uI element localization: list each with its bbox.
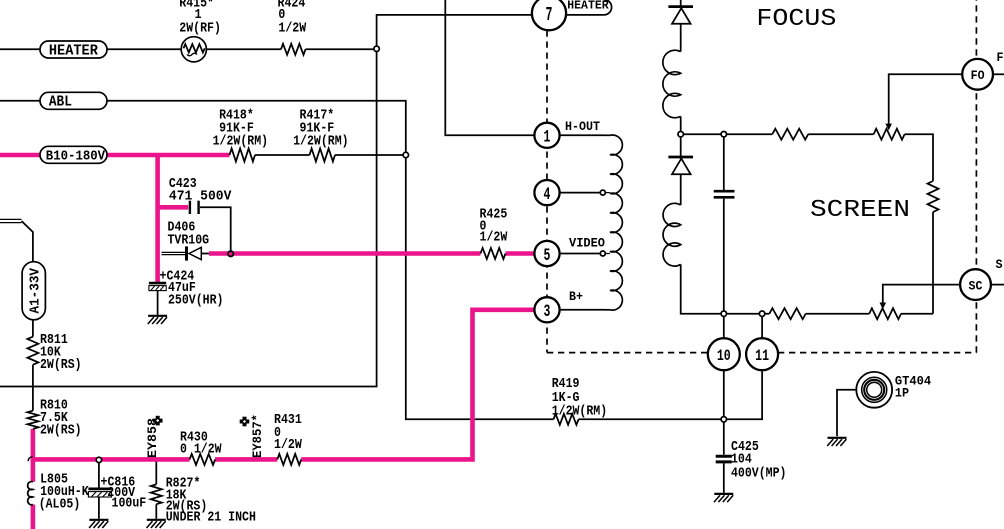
pin 10 bbox=[708, 338, 740, 370]
capacitor C423 plates bbox=[190, 201, 199, 214]
net magenta branch down to C424 bbox=[155, 155, 160, 282]
wire junction down to left rail bbox=[0, 49, 377, 387]
label R418 bbox=[213, 107, 269, 149]
wire pin 11 up to screen rail bbox=[761, 316, 763, 338]
junction D406/C423 node bbox=[228, 251, 233, 256]
label F right edge bbox=[997, 51, 1004, 65]
resistor focus series bbox=[772, 129, 808, 140]
svg-text:TVR10G: TVR10G bbox=[168, 233, 210, 249]
resistor R419 zigzag bbox=[554, 414, 579, 425]
label C816 bbox=[101, 475, 147, 512]
resistor R418 zigzag bbox=[230, 149, 256, 162]
label R431 bbox=[274, 412, 302, 453]
wire pin 5 tap bbox=[560, 253, 601, 255]
label C425 bbox=[731, 439, 787, 482]
port B10-180V bbox=[40, 146, 107, 164]
net B10-180V magenta to R418 bbox=[107, 153, 230, 158]
label C424 bbox=[160, 269, 224, 309]
junction C816 bus node bbox=[96, 457, 101, 462]
wire pin 4 tap stub bbox=[605, 192, 610, 194]
net magenta bus R430 to corner bbox=[33, 457, 190, 462]
HV winding upper bbox=[663, 50, 681, 118]
label S right edge bbox=[996, 258, 1003, 272]
pin 1 bbox=[534, 123, 559, 148]
wire ABL net from left edge bbox=[0, 100, 40, 102]
wire C816 junction down to cap bbox=[98, 460, 100, 488]
wire top edge to diode D1 bbox=[680, 0, 682, 8]
svg-text:1P: 1P bbox=[895, 385, 909, 400]
wire pin 1 to primary winding bbox=[560, 134, 605, 136]
wire pin 7 to heater winding bbox=[566, 14, 604, 16]
ground C425 bbox=[714, 494, 733, 502]
jumper EY858 label bbox=[145, 418, 160, 458]
svg-text:1/2W: 1/2W bbox=[278, 20, 306, 36]
label R415 bbox=[179, 0, 221, 36]
junction HV winding focus rail bbox=[678, 132, 683, 137]
junction pin5 tap bbox=[600, 251, 605, 256]
label R425 bbox=[480, 207, 508, 246]
wire C423 to D406 junction bbox=[200, 207, 231, 254]
arrow focus wiper bbox=[885, 124, 892, 131]
wire SC to screen pot wiper bbox=[883, 285, 960, 303]
potentiometer FOCUS bbox=[874, 129, 905, 140]
label VIDEO pin5 bbox=[569, 236, 605, 251]
net VIDEO magenta R425 to pin 5 bbox=[506, 251, 536, 256]
junction capacitor bottom rail bbox=[721, 311, 726, 316]
HV diode lower bbox=[668, 157, 693, 174]
wire junction up to pin 7 bbox=[377, 15, 532, 49]
wire R417 to node bbox=[335, 154, 406, 156]
svg-text:3: 3 bbox=[544, 302, 551, 322]
svg-text:471 500V: 471 500V bbox=[169, 188, 232, 204]
junction R419 pin10 node bbox=[721, 417, 726, 422]
wire pin10 junction to pin 11 corner bbox=[724, 370, 762, 419]
label H-OUT pin1 bbox=[565, 119, 600, 134]
spark gap GT404 bbox=[856, 372, 892, 408]
svg-text:5: 5 bbox=[544, 246, 551, 266]
label R424 bbox=[278, 0, 307, 36]
port ABL bbox=[40, 92, 107, 110]
wire pin 4 tap bbox=[560, 192, 601, 194]
wire C816 to ground bbox=[98, 497, 100, 519]
svg-text:FOCUS: FOCUS bbox=[756, 6, 836, 33]
pin 11 bbox=[746, 338, 778, 370]
resistor R811 zigzag bbox=[27, 337, 38, 365]
resistor screen series bbox=[769, 308, 805, 319]
svg-text:S: S bbox=[996, 258, 1003, 272]
net magenta bus R431 to R430 bbox=[215, 457, 277, 462]
junction ABL/R417 node bbox=[403, 152, 408, 157]
svg-text:11: 11 bbox=[755, 347, 769, 365]
svg-text:EY857*: EY857* bbox=[250, 414, 265, 458]
heater winding half-turn bbox=[604, 0, 612, 15]
resistor bleeder vertical bbox=[928, 181, 939, 212]
wire node down to R419 bbox=[406, 155, 554, 419]
svg-text:1/2W(RM): 1/2W(RM) bbox=[552, 403, 608, 419]
wire focus rail to diode lower bbox=[680, 134, 682, 158]
capacitor C425 plates bbox=[716, 456, 732, 462]
jumper EY857 label bbox=[250, 414, 265, 458]
resistor R810 zigzag bbox=[27, 411, 38, 429]
HV diode upper bbox=[668, 7, 693, 24]
wire junction down to C425 bbox=[723, 419, 725, 454]
wire A1-33V to R811 bbox=[32, 320, 34, 337]
wire screen rail to right column bbox=[901, 313, 933, 315]
resistor R424 zigzag bbox=[281, 44, 306, 55]
junction pin 11 screen rail bbox=[759, 311, 764, 316]
transformer boundary dashed left bbox=[546, 31, 548, 353]
wire screen rail bbox=[724, 313, 770, 315]
svg-text:(AL05): (AL05) bbox=[39, 497, 81, 513]
wire HEATER net from left edge bbox=[0, 48, 40, 50]
wire C424 to ground bbox=[157, 291, 159, 315]
wire SC to right edge bbox=[991, 284, 1004, 286]
wire pin 10 down to junction bbox=[723, 370, 725, 419]
svg-text:A1-33V: A1-33V bbox=[29, 267, 44, 313]
pin 3 bbox=[534, 297, 559, 322]
label R419 bbox=[552, 376, 608, 419]
wire HV winding lower to screen rail bbox=[681, 264, 724, 313]
ground C424 bbox=[148, 316, 167, 324]
net B10-180V magenta from left edge bbox=[0, 153, 40, 158]
potentiometer SCREEN bbox=[869, 308, 901, 319]
wire D406 cathode to junction bbox=[201, 253, 209, 255]
wire focus rail bbox=[681, 133, 773, 135]
jumper EY857 marker bbox=[240, 417, 250, 427]
svg-text:B10-180V: B10-180V bbox=[46, 149, 106, 165]
svg-text:HEATER: HEATER bbox=[567, 0, 609, 13]
svg-text:2W(RF): 2W(RF) bbox=[179, 20, 221, 36]
wire bus down to R827 bbox=[155, 460, 157, 485]
wire HEATER box to R415 bbox=[107, 48, 181, 50]
svg-text:H-OUT: H-OUT bbox=[565, 119, 600, 134]
svg-text:FO: FO bbox=[971, 68, 985, 83]
wire focus rail to right column bbox=[905, 134, 933, 181]
svg-text:EY858: EY858 bbox=[145, 418, 160, 458]
capacitor C424 electrolytic bbox=[149, 283, 166, 291]
label R417 bbox=[293, 107, 349, 149]
junction heater pin7 node bbox=[374, 46, 379, 51]
svg-text:HEATER: HEATER bbox=[49, 43, 98, 59]
corner hook bus bbox=[28, 457, 32, 461]
transformer boundary dashed right bbox=[975, 0, 977, 353]
junction pin4 tap bbox=[600, 190, 605, 195]
wire R418 to R417 bbox=[255, 154, 310, 156]
label R811 bbox=[40, 332, 82, 373]
resistor R415 fusible bbox=[181, 37, 206, 62]
wire R415 to R424 bbox=[206, 48, 281, 50]
pin 5 bbox=[534, 241, 559, 266]
resistor R431 zigzag bbox=[277, 454, 301, 465]
inductor L805 bbox=[28, 482, 33, 505]
label SCREEN bbox=[810, 197, 910, 224]
net B+ magenta pin 3 to bus bbox=[301, 310, 535, 460]
wire FO to focus pot wiper bbox=[889, 74, 963, 124]
svg-text:1/2W: 1/2W bbox=[274, 437, 302, 453]
junction capacitor top rail bbox=[721, 132, 726, 137]
diode D406 TVR10G bbox=[187, 246, 202, 260]
svg-text:400V(MP): 400V(MP) bbox=[731, 466, 787, 482]
svg-text:2W(RS): 2W(RS) bbox=[40, 423, 82, 439]
resistor R425 zigzag bbox=[481, 248, 506, 259]
label L805 bbox=[39, 472, 89, 513]
capacitor divider lead upper bbox=[723, 134, 725, 190]
svg-text:4: 4 bbox=[544, 185, 551, 205]
svg-text:UNDER 21 INCH: UNDER 21 INCH bbox=[166, 510, 256, 526]
wire right column down bbox=[932, 212, 934, 314]
wire R424 to junction bbox=[306, 48, 377, 50]
svg-text:B+: B+ bbox=[569, 289, 583, 304]
wire A1-33V double lead from left edge bbox=[0, 219, 33, 261]
capacitor divider plates bbox=[714, 191, 735, 197]
ground C816 bbox=[89, 520, 108, 528]
label C423 bbox=[169, 176, 232, 204]
ground R827 bbox=[147, 520, 166, 528]
resistor R430 zigzag bbox=[190, 454, 216, 465]
wire R419 to pin10/11 column bbox=[579, 418, 724, 420]
primary winding pins 1-3 bbox=[605, 135, 623, 310]
svg-text:1/2W(RM): 1/2W(RM) bbox=[213, 133, 269, 149]
label R430 bbox=[180, 430, 222, 458]
svg-text:1/2W: 1/2W bbox=[480, 230, 508, 246]
pin 4 bbox=[534, 180, 559, 205]
pin 7 bbox=[532, 0, 566, 30]
terminal SC bbox=[960, 269, 991, 300]
wire diode to HV winding upper bbox=[680, 24, 682, 52]
wire HV winding to focus rail bbox=[680, 116, 682, 134]
label R810 bbox=[40, 398, 82, 439]
svg-text:250V(HR): 250V(HR) bbox=[168, 293, 224, 309]
transformer boundary dashed bottom bbox=[547, 352, 976, 354]
svg-text:2W(RS): 2W(RS) bbox=[40, 357, 82, 373]
jumper EY858 marker bbox=[153, 416, 163, 426]
wire ABL box right then down to node bbox=[107, 101, 406, 155]
net magenta L805 to bottom edge bbox=[31, 505, 36, 529]
svg-text:F: F bbox=[997, 51, 1004, 65]
wire R811 to R810 bbox=[32, 365, 34, 411]
label B+ pin3 bbox=[569, 289, 583, 304]
net magenta R810 to bus corner bbox=[31, 429, 36, 462]
wire diode lower to HV winding lower bbox=[680, 174, 682, 205]
wire GT404 to ground bbox=[837, 390, 856, 436]
net magenta bus corner to L805 bbox=[31, 459, 36, 481]
wire C425 to ground bbox=[723, 463, 725, 493]
label FOCUS bbox=[756, 6, 836, 33]
svg-text:100uF: 100uF bbox=[112, 496, 147, 512]
resistor R827 zigzag bbox=[151, 484, 162, 504]
capacitor C816 electrolytic bbox=[88, 489, 111, 497]
wire focus rail middle bbox=[808, 133, 873, 135]
resistor R417 zigzag bbox=[310, 149, 336, 162]
wire D406 anode double line bbox=[162, 252, 186, 254]
svg-text:SC: SC bbox=[969, 278, 983, 293]
wire pin 3 to winding bottom bbox=[560, 309, 605, 311]
wire screen rail middle bbox=[806, 313, 870, 315]
svg-text:VIDEO: VIDEO bbox=[569, 236, 605, 251]
capacitor divider lead lower bbox=[723, 199, 725, 314]
arrow screen wiper bbox=[880, 303, 887, 310]
svg-text:1: 1 bbox=[544, 128, 551, 148]
label HEATER pin7 bbox=[567, 0, 609, 13]
HV winding lower bbox=[663, 203, 681, 266]
label R827 bbox=[166, 476, 256, 526]
svg-text:0 1/2W: 0 1/2W bbox=[180, 442, 222, 458]
svg-text:7: 7 bbox=[546, 4, 553, 26]
svg-text:1/2W(RM): 1/2W(RM) bbox=[293, 133, 349, 149]
label D406 bbox=[168, 220, 210, 249]
wire pin 10 up to screen rail bbox=[723, 314, 725, 339]
port A1-33V bbox=[22, 262, 45, 320]
terminal FO bbox=[962, 59, 993, 90]
svg-text:ABL: ABL bbox=[49, 95, 72, 111]
wire pin 5 to R425 black gap bbox=[0, 0, 1, 1]
net VIDEO magenta D406 to R425 bbox=[209, 251, 481, 256]
net magenta stub to C423 bbox=[158, 205, 189, 210]
wire R827 to ground bbox=[155, 504, 157, 519]
svg-text:SCREEN: SCREEN bbox=[810, 197, 910, 224]
svg-text:10: 10 bbox=[717, 347, 731, 365]
wire FO to right edge bbox=[993, 73, 1004, 75]
ground GT404 bbox=[827, 438, 846, 446]
label GT404 bbox=[895, 373, 931, 400]
port HEATER bbox=[40, 41, 107, 59]
wire pin 5 tap stub bbox=[605, 253, 610, 255]
wire top edge down to pin 1 H-OUT bbox=[445, 0, 534, 135]
